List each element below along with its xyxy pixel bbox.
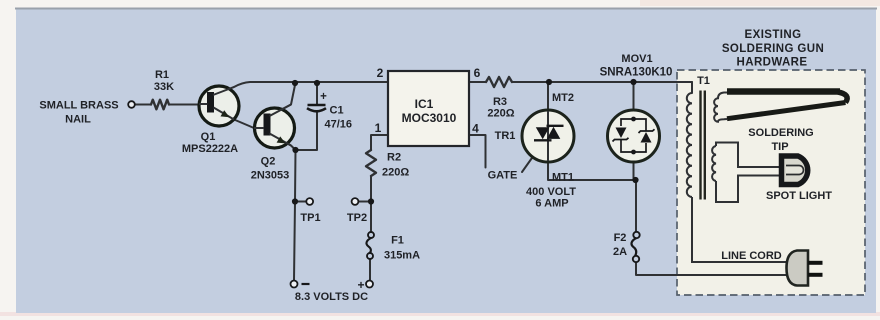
wire bottom node to F2 (635, 180, 637, 232)
resistor R1 zigzag (151, 100, 169, 110)
node junction TR1 top (546, 79, 552, 85)
lamp spot light (782, 156, 808, 185)
resistor R3 zigzag (486, 77, 512, 87)
svg-text:1: 1 (375, 121, 382, 135)
node junction TP1 (292, 198, 298, 204)
svg-text:MOC3010: MOC3010 (402, 111, 457, 125)
svg-text:8.3 VOLTS DC: 8.3 VOLTS DC (295, 291, 368, 303)
capacitor C1 (307, 105, 326, 111)
svg-text:T1: T1 (697, 75, 710, 87)
svg-text:SNRA130K10: SNRA130K10 (600, 67, 673, 79)
wire MOV1 top (633, 82, 635, 110)
resistor R2 zigzag (366, 150, 376, 176)
node junction C1 top (314, 80, 320, 86)
svg-text:IC1: IC1 (415, 97, 434, 111)
svg-text:315mA: 315mA (384, 250, 420, 262)
plug line cord (787, 251, 823, 286)
svg-text:EXISTING: EXISTING (745, 29, 802, 41)
node junction TP2 (368, 198, 374, 204)
wire F2 to line cord lower (636, 262, 788, 275)
node junction MOV1 top (630, 79, 636, 85)
wire TP2 stub (358, 201, 371, 203)
svg-text:MT1: MT1 (552, 172, 574, 184)
triac TR1 (522, 110, 574, 162)
svg-text:LINE CORD: LINE CORD (721, 250, 782, 262)
transformer T1 core (701, 91, 705, 200)
wire emitter node down to minus terminal (294, 150, 296, 281)
existing hardware dashed box (677, 70, 865, 295)
wire IC pin6 to R3 (469, 81, 486, 83)
wire spot light lead B (716, 176, 779, 203)
transformer T1 primary winding (687, 93, 692, 197)
wire R1 to Q1 base (169, 104, 208, 106)
terminal plus (366, 281, 373, 288)
svg-text:6: 6 (474, 66, 481, 80)
node junction Q2 collector (292, 80, 298, 86)
wire TR1 top (547, 82, 549, 110)
soldering tip heating loop (727, 92, 847, 119)
svg-text:SPOT LIGHT: SPOT LIGHT (766, 190, 832, 202)
wire C1 bottom lead to emitter node (296, 112, 318, 151)
wire nail terminal to R1 (135, 104, 151, 106)
wire F1 to plus terminal (369, 259, 371, 281)
fuse F1 (366, 232, 374, 259)
wire IC pin4 to gate (469, 135, 486, 168)
svg-text:TIP: TIP (771, 141, 788, 153)
wire Q2 emitter (270, 134, 296, 151)
wire Q1 emitter to Q2 base (234, 120, 265, 129)
test point TP2 (352, 198, 359, 205)
svg-text:R1: R1 (155, 69, 169, 81)
wire R2 to F1 (370, 176, 372, 232)
svg-text:MT2: MT2 (552, 92, 574, 104)
wire TR1 MT1 to bottom node (548, 162, 635, 180)
svg-text:SOLDERING GUN: SOLDERING GUN (722, 43, 824, 55)
svg-text:2A: 2A (613, 246, 627, 258)
wire C1 top lead (316, 83, 318, 105)
wire MOV1 bottom (633, 162, 635, 180)
wire IC pin1 to R2 (371, 135, 388, 150)
wire Q1 collector to top rail (213, 82, 388, 95)
test point TP1 (306, 198, 313, 205)
wire Q2 collector to rail junction (270, 85, 296, 116)
svg-text:+: + (320, 91, 327, 103)
varistor MOV1 (608, 110, 660, 162)
svg-text:220Ω: 220Ω (382, 167, 409, 179)
fuse F2 (632, 232, 640, 262)
node junction F2 top (632, 177, 638, 183)
svg-text:SMALL BRASS: SMALL BRASS (39, 100, 118, 112)
svg-text:F1: F1 (391, 235, 404, 247)
wire gate lead diagonal to TR1 (522, 141, 544, 172)
label EXISTING SOLDERING GUN HARDWARE (722, 29, 824, 69)
IC IC1 MOC3010 box (388, 71, 469, 146)
svg-text:Q1: Q1 (201, 131, 216, 143)
terminal minus (291, 281, 298, 288)
svg-text:Q2: Q2 (261, 156, 276, 168)
svg-text:47/16: 47/16 (325, 119, 353, 131)
svg-text:4: 4 (472, 122, 479, 136)
svg-text:6 AMP: 6 AMP (535, 198, 568, 210)
svg-text:F2: F2 (614, 232, 627, 244)
svg-text:MOV1: MOV1 (621, 53, 652, 65)
svg-text:400 VOLT: 400 VOLT (526, 186, 576, 198)
wire spot light lead A (716, 143, 779, 168)
wire Q1 emitter (214, 108, 235, 120)
svg-text:2N3053: 2N3053 (251, 170, 290, 182)
svg-text:C1: C1 (330, 105, 344, 117)
svg-text:220Ω: 220Ω (487, 108, 514, 120)
wire T1 primary bottom to line cord (692, 197, 787, 262)
svg-text:SOLDERING: SOLDERING (748, 127, 813, 139)
svg-text:TP1: TP1 (300, 212, 320, 224)
svg-text:TP2: TP2 (347, 212, 367, 224)
transistor Q2 (254, 105, 295, 149)
svg-text:HARDWARE: HARDWARE (737, 57, 808, 69)
svg-text:MPS2222A: MPS2222A (182, 143, 238, 155)
svg-text:NAIL: NAIL (65, 114, 91, 126)
terminal nail input (128, 101, 135, 108)
svg-text:R3: R3 (493, 96, 507, 108)
transistor Q1 (199, 86, 239, 126)
node junction Q2 emitter / C1 (292, 147, 298, 153)
svg-text:+: + (357, 278, 364, 292)
svg-text:2: 2 (377, 66, 384, 80)
transformer T1 secondary top winding (714, 93, 727, 122)
wire T1 primary top elbow (691, 82, 693, 93)
svg-text:R2: R2 (387, 152, 401, 164)
wire TP1 stub (295, 201, 306, 203)
svg-text:33K: 33K (154, 81, 174, 93)
svg-text:TR1: TR1 (495, 130, 516, 142)
svg-text:GATE: GATE (488, 170, 518, 182)
transformer T1 secondary bottom winding (712, 146, 716, 181)
wire R3 to T1 primary top rail (512, 81, 692, 83)
